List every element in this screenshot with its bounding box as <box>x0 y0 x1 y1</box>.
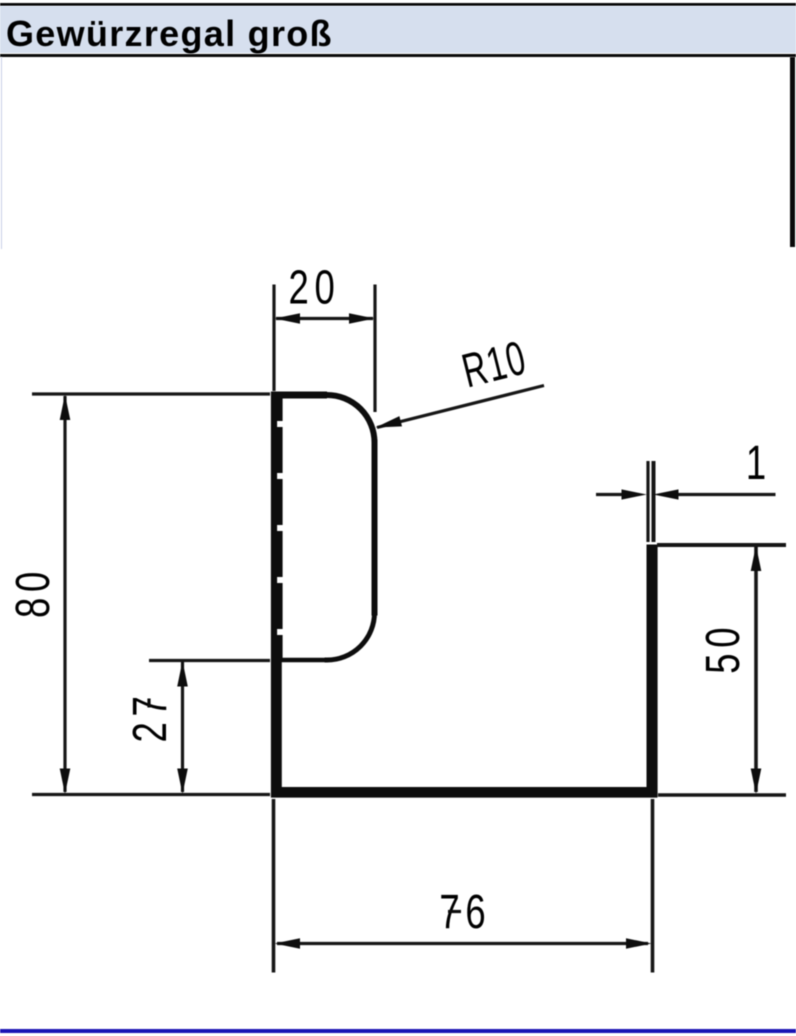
tab bottom corner arc R10 <box>327 613 375 661</box>
cell left light border <box>1 57 3 249</box>
arrowhead 76 left <box>275 938 301 949</box>
extension line 27 <box>149 659 270 662</box>
svg-text:80: 80 <box>6 566 60 618</box>
extension line dim20 right <box>373 285 376 413</box>
profile bottom outer edge <box>271 791 657 797</box>
header band <box>0 6 796 54</box>
profile right wall outer edge <box>651 545 657 798</box>
extension line bottom right <box>658 793 786 797</box>
arrowhead 76 right <box>626 938 652 949</box>
extension line 1 right <box>652 461 656 542</box>
extension line 1 left <box>646 461 649 542</box>
arrowhead 27 up <box>177 661 188 687</box>
cell right black border <box>790 57 795 247</box>
leader line R10 <box>377 386 544 428</box>
dimension line 76 <box>277 942 648 945</box>
crossbar of digit 7 in dim 76 <box>448 910 461 913</box>
svg-text:1: 1 <box>746 436 772 490</box>
dimension line 27 <box>181 662 184 792</box>
arrowhead 27 down <box>177 769 188 795</box>
arrowhead 1 pointing left <box>653 489 678 499</box>
arrowhead 80 up <box>60 395 71 421</box>
profile left wall inner edge (solid, below tab) <box>276 660 282 791</box>
arrowhead 20 left <box>275 313 301 324</box>
tab bottom edge <box>271 658 327 663</box>
extension line 50 top <box>657 543 786 547</box>
arrowhead R10 leader <box>376 416 403 427</box>
extension line bottom left <box>32 793 270 796</box>
extension line 80 top <box>32 392 270 395</box>
tab top edge <box>271 392 327 399</box>
extension line 76 right <box>651 799 655 973</box>
bottom navy rule <box>0 1029 796 1033</box>
svg-text:50: 50 <box>696 622 750 674</box>
profile left wall inner edge (dashed, tab region) <box>277 398 283 659</box>
arrowhead 20 right <box>349 313 375 324</box>
crossbar of digit 7 in dim 27 (rotated) <box>147 699 150 708</box>
svg-text:20: 20 <box>289 261 341 315</box>
dimension line 80 <box>63 396 66 792</box>
extension line dim20 left <box>272 285 275 392</box>
dimension line 20 <box>276 317 373 320</box>
arrowhead 1 pointing right <box>622 489 647 499</box>
svg-text:76: 76 <box>439 885 491 939</box>
svg-text:27: 27 <box>123 691 177 743</box>
arrowhead 50 down <box>751 769 762 795</box>
header title text <box>6 15 786 53</box>
header top border line <box>0 3 796 6</box>
header bottom border line <box>0 54 796 57</box>
arrowhead 80 down <box>60 769 71 795</box>
profile bottom inner edge <box>277 787 651 793</box>
profile right wall inner edge <box>647 545 653 792</box>
dimension line 50 <box>754 547 758 792</box>
profile left wall outer edge <box>271 392 277 798</box>
dimension line 1 left segment <box>596 493 624 496</box>
extension line 76 left <box>272 799 276 973</box>
dimension line 1 right segment <box>677 493 776 496</box>
svg-text:R10: R10 <box>457 330 532 398</box>
arrowhead 50 up <box>751 546 762 572</box>
tab top corner arc R10 <box>327 395 375 443</box>
tab right edge <box>372 443 378 613</box>
